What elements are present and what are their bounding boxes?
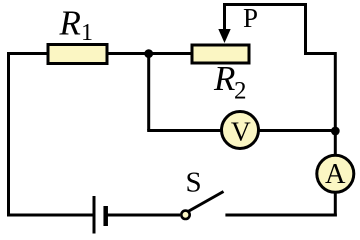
svg-text:V: V (231, 116, 251, 147)
wire: left vertical side (7, 52, 10, 217)
wire: horizontal to voltmeter (147, 129, 222, 132)
svg-text:1: 1 (81, 20, 93, 46)
wire: bottom left horizontal (7, 214, 93, 217)
wire: R1 to R2 (through junction) (107, 52, 192, 55)
resistor R1 (48, 45, 107, 64)
switch S blade (188, 192, 224, 212)
wire: vertical from top junction down (147, 54, 150, 131)
voltmeter U-V circle (222, 112, 259, 149)
slider arrow P stem (223, 3, 226, 32)
switch S pivot (181, 211, 189, 219)
wire: voltmeter to right junction (258, 129, 335, 132)
wire: battery to switch pivot (107, 214, 180, 217)
wire: top-left horizontal to R1 (7, 52, 47, 55)
wire: right vertical down to ammeter (334, 52, 337, 155)
battery long plate (93, 196, 96, 234)
svg-text:R: R (213, 59, 235, 98)
node: junction dot right (V line) (331, 127, 340, 136)
svg-text:P: P (243, 3, 258, 33)
wire: bottom right horizontal to switch (225, 214, 336, 217)
slider arrow P head (218, 29, 230, 43)
svg-text:2: 2 (234, 78, 247, 105)
battery short plate (103, 206, 108, 226)
svg-text:R: R (59, 4, 81, 43)
svg-text:S: S (186, 167, 202, 199)
svg-text:A: A (325, 159, 346, 190)
wire: below ammeter (334, 192, 337, 217)
wire: right step vertical (304, 3, 307, 54)
node: junction dot left (top) (144, 49, 153, 58)
rheostat R2 (192, 45, 249, 63)
wire: top run from arrow to right corner (225, 3, 306, 6)
ammeter U-A circle (317, 155, 354, 192)
wire: right step horizontal (304, 52, 335, 55)
